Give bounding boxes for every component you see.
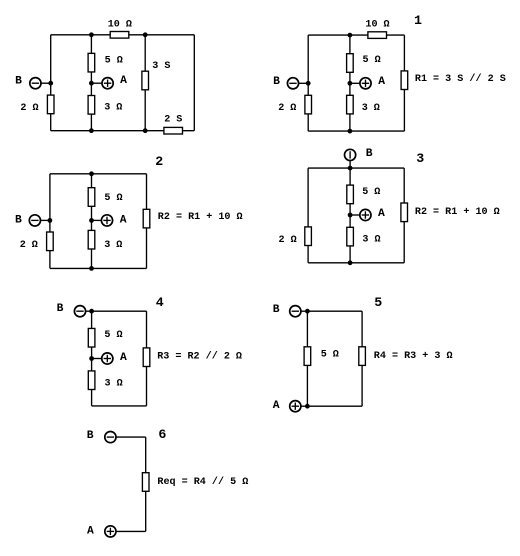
svg-text:A: A	[120, 75, 127, 87]
wire: circuit4 A terminal lead	[92, 358, 102, 360]
terminal A (circuit3)	[360, 209, 371, 220]
node circuit0 A	[89, 81, 94, 86]
wire: circuit3 middle rail	[349, 168, 351, 263]
wire: circuit4 right rail	[146, 311, 148, 406]
resistor 5 Ohm (circuit0 middle)	[88, 53, 95, 72]
wire: circuit1 bottom rail	[308, 130, 404, 132]
svg-text:A: A	[273, 400, 280, 412]
wire: circuit4 middle rail	[91, 311, 93, 406]
node circuit1 A	[348, 81, 353, 86]
svg-text:3 Ω: 3 Ω	[104, 103, 122, 114]
svg-text:6: 6	[158, 427, 166, 442]
terminal B (circuit5)	[290, 306, 301, 317]
svg-text:2 Ω: 2 Ω	[279, 235, 297, 246]
node circuit4 A	[89, 356, 94, 361]
resistor R2 (circuit2 right)	[143, 209, 150, 228]
wire: circuit3 A terminal lead	[350, 214, 360, 216]
node circuit1 B	[306, 81, 311, 86]
svg-text:A: A	[378, 76, 385, 88]
svg-text:A: A	[120, 352, 127, 364]
svg-text:2: 2	[155, 154, 163, 169]
wire: circuit2 B terminal lead	[41, 219, 50, 221]
node circuit1 top-mid	[348, 33, 353, 38]
wire: circuit3 B terminal lead	[349, 161, 351, 169]
node circuit0 bottom-mid	[89, 128, 94, 133]
svg-text:B: B	[57, 303, 64, 315]
terminal B (circuit3)	[345, 149, 356, 160]
wire: circuit4 top rail	[92, 310, 147, 312]
wire: circuit1 B terminal lead	[299, 82, 309, 84]
terminal B (circuit1)	[287, 78, 298, 89]
node circuit3 top	[348, 166, 353, 171]
svg-text:3 S: 3 S	[152, 61, 170, 72]
resistor 3 Ohm (circuit0 middle)	[88, 96, 95, 115]
wire: circuit2 bottom rail	[50, 267, 147, 269]
wire: circuit0 B terminal lead	[41, 82, 51, 84]
wire: circuit0 right rail	[193, 35, 195, 131]
wire: circuit3 top rail	[308, 167, 404, 169]
wire: circuit6 top lead	[116, 436, 146, 438]
wire: circuit5 B terminal lead	[301, 310, 308, 312]
wire: circuit3 left rail	[307, 168, 309, 263]
node circuit4 B	[89, 309, 94, 314]
resistor 2 Ohm (circuit0 left)	[47, 95, 54, 114]
svg-text:10 Ω: 10 Ω	[108, 19, 132, 30]
terminal B (circuit0)	[30, 78, 41, 89]
svg-text:3: 3	[416, 151, 424, 166]
svg-text:R2 = R1 + 10 Ω: R2 = R1 + 10 Ω	[415, 207, 500, 218]
wire: circuit1 A terminal lead	[350, 82, 360, 84]
resistor 3 Ohm (circuit1 middle)	[347, 95, 354, 114]
terminal A (circuit1)	[360, 78, 371, 89]
resistor R1 (circuit1 right)	[401, 71, 408, 90]
node circuit0 bottom-3S	[143, 128, 148, 133]
wire: circuit4 B terminal lead	[86, 310, 92, 312]
node circuit0 top-3S	[143, 32, 148, 37]
svg-text:R2 = R1 + 10 Ω: R2 = R1 + 10 Ω	[158, 212, 243, 223]
svg-text:A: A	[87, 526, 94, 538]
resistor 2 Ohm (circuit1 left)	[305, 95, 312, 114]
svg-text:5 Ω: 5 Ω	[363, 55, 381, 66]
node circuit0 B	[48, 81, 53, 86]
terminal B (circuit6)	[105, 432, 116, 443]
terminal B (circuit4)	[74, 306, 85, 317]
svg-text:1: 1	[414, 13, 422, 28]
svg-text:B: B	[366, 148, 373, 160]
svg-text:2 Ω: 2 Ω	[20, 240, 38, 251]
svg-text:2 S: 2 S	[164, 115, 182, 126]
svg-text:A: A	[378, 208, 385, 220]
resistor R2 (circuit3 right)	[401, 203, 408, 222]
svg-text:B: B	[273, 304, 280, 316]
svg-text:2 Ω: 2 Ω	[278, 103, 296, 114]
resistor 3 Ohm (circuit3 middle)	[347, 227, 354, 246]
svg-text:5 Ω: 5 Ω	[104, 330, 122, 341]
svg-text:R3 = R2 // 2 Ω: R3 = R2 // 2 Ω	[157, 350, 242, 362]
terminal A (circuit4)	[102, 353, 113, 364]
resistor 10 Ohm (circuit1 top)	[368, 32, 387, 39]
node circuit1 bottom-mid	[348, 129, 353, 134]
node circuit5 A	[305, 404, 310, 409]
wire: circuit0 top rail	[51, 34, 195, 36]
svg-text:5: 5	[374, 295, 382, 310]
svg-text:5 Ω: 5 Ω	[321, 350, 339, 361]
node circuit2 bottom-mid	[89, 266, 94, 271]
wire: circuit6 vertical rail	[145, 437, 147, 531]
wire: circuit2 right rail	[146, 174, 148, 269]
resistor 5 Ohm (circuit1 middle)	[347, 54, 354, 73]
terminal B (circuit2)	[29, 215, 40, 226]
node circuit2 A	[89, 218, 94, 223]
wire: circuit5 left rail	[306, 311, 308, 406]
resistor 2 Ohm (circuit2 left)	[47, 232, 54, 251]
svg-text:5 Ω: 5 Ω	[105, 55, 123, 66]
resistor 2 Ohm (circuit3 left)	[305, 227, 312, 246]
resistor 5 Ohm (circuit5 left)	[304, 347, 311, 366]
wire: circuit2 A terminal lead	[92, 219, 102, 221]
wire: circuit5 top rail	[307, 310, 362, 312]
terminal A (circuit2)	[101, 215, 112, 226]
wire: circuit4 bottom rail	[92, 405, 147, 407]
resistor 5 Ohm (circuit2 middle)	[88, 188, 95, 207]
wire: circuit6 bottom lead	[116, 530, 146, 532]
wire: circuit0 middle rail	[90, 35, 92, 131]
wire: circuit0 A terminal lead	[91, 82, 102, 84]
resistor Req (circuit6)	[142, 473, 149, 492]
wire: circuit0 bottom rail	[51, 130, 195, 132]
wire: circuit5 right rail	[361, 311, 363, 406]
terminal A (circuit5)	[290, 401, 301, 412]
resistor 2 S (circuit0 bottom)	[164, 127, 183, 134]
wire: circuit1 left rail	[307, 35, 309, 131]
svg-text:2 Ω: 2 Ω	[20, 103, 38, 114]
node circuit3 A	[348, 213, 353, 218]
wire: circuit0 left rail	[50, 35, 52, 131]
node circuit2 top-mid	[89, 171, 94, 176]
svg-text:B: B	[15, 215, 22, 227]
svg-text:B: B	[15, 76, 22, 88]
wire: circuit2 top rail	[50, 173, 147, 175]
svg-text:B: B	[87, 430, 94, 442]
svg-text:3 Ω: 3 Ω	[104, 240, 122, 251]
wire: circuit3 bottom rail	[308, 262, 404, 264]
svg-text:A: A	[120, 215, 127, 227]
svg-text:3 Ω: 3 Ω	[362, 234, 380, 245]
resistor 3 Ohm (circuit4)	[88, 371, 95, 390]
node circuit3 bottom	[348, 260, 353, 265]
resistor R4 (circuit5 right)	[359, 347, 366, 366]
node circuit2 B	[48, 218, 53, 223]
wire: circuit5 bottom rail	[307, 405, 362, 407]
terminal A (circuit0)	[102, 78, 113, 89]
svg-text:5 Ω: 5 Ω	[104, 193, 122, 204]
svg-text:Req = R4 // 5 Ω: Req = R4 // 5 Ω	[157, 476, 248, 488]
node circuit0 top-mid	[89, 32, 94, 37]
wire: circuit1 right rail	[403, 35, 405, 131]
wire: circuit0 3S branch rail	[144, 35, 146, 131]
resistor 5 Ohm (circuit3 middle)	[347, 185, 354, 204]
svg-text:B: B	[273, 76, 280, 88]
wire: circuit2 middle rail	[91, 174, 93, 269]
node circuit5 B	[305, 309, 310, 314]
resistor 10 Ohm (circuit0 top)	[110, 32, 129, 39]
svg-text:3 Ω: 3 Ω	[362, 103, 380, 114]
svg-text:4: 4	[156, 295, 164, 310]
svg-text:5 Ω: 5 Ω	[362, 187, 380, 198]
wire: circuit2 left rail	[49, 174, 51, 269]
svg-text:10 Ω: 10 Ω	[365, 19, 389, 30]
resistor 3 S (circuit0)	[142, 71, 149, 90]
svg-text:R1 = 3 S // 2 S: R1 = 3 S // 2 S	[415, 73, 506, 85]
svg-text:3 Ω: 3 Ω	[105, 378, 123, 389]
resistor 5 Ohm (circuit4)	[88, 328, 95, 347]
svg-text:R4 = R3 + 3 Ω: R4 = R3 + 3 Ω	[374, 351, 453, 362]
resistor R3 (circuit4 right)	[143, 348, 150, 367]
wire: circuit1 top rail	[308, 34, 404, 36]
wire: circuit3 right rail	[403, 168, 405, 263]
terminal A (circuit6)	[105, 526, 116, 537]
wire: circuit1 middle rail	[349, 35, 351, 131]
resistor 3 Ohm (circuit2 middle)	[88, 230, 95, 249]
wire: circuit5 A terminal lead	[301, 405, 308, 407]
